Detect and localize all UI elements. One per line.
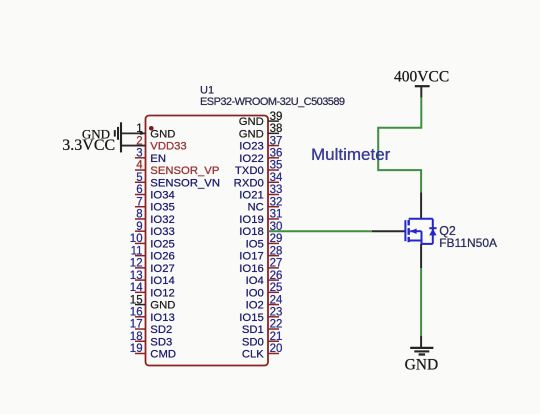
svg-text:3.3VCC: 3.3VCC [62, 137, 115, 154]
svg-text:36: 36 [270, 148, 283, 160]
svg-text:IO32: IO32 [150, 214, 175, 226]
svg-text:34: 34 [270, 172, 283, 184]
pin 5 SENSOR_VN [135, 172, 220, 189]
svg-text:IO12: IO12 [150, 287, 175, 299]
svg-text:IO2: IO2 [246, 300, 264, 312]
svg-text:EN: EN [150, 153, 166, 165]
pin 20 CLK [242, 343, 283, 360]
svg-text:22: 22 [270, 319, 283, 331]
svg-text:IO23: IO23 [239, 141, 264, 153]
svg-text:IO21: IO21 [239, 190, 264, 202]
wire source to ground (green) [420, 268, 422, 336]
svg-text:3: 3 [136, 148, 142, 160]
pin 36 IO22 [239, 148, 282, 165]
pin 19 CMD [130, 343, 176, 360]
pin 35 TXD0 [235, 160, 282, 177]
svg-text:400VCC: 400VCC [394, 69, 449, 86]
svg-text:IO13: IO13 [150, 312, 175, 324]
svg-text:19: 19 [130, 343, 143, 355]
svg-text:IO22: IO22 [239, 153, 264, 165]
svg-text:6: 6 [136, 184, 142, 196]
pin 3 EN [135, 148, 166, 165]
svg-text:IO0: IO0 [246, 287, 264, 299]
svg-text:35: 35 [270, 160, 283, 172]
svg-text:24: 24 [270, 294, 283, 306]
svg-text:38: 38 [270, 123, 283, 135]
svg-text:IO27: IO27 [150, 263, 175, 275]
pin 32 NC [247, 196, 282, 213]
wire gate stub (black) [372, 230, 405, 232]
svg-text:26: 26 [270, 270, 283, 282]
pin 11 IO26 [131, 245, 175, 262]
pin 24 IO2 [246, 294, 283, 311]
svg-text:U1: U1 [200, 85, 214, 97]
svg-text:15: 15 [130, 294, 143, 306]
pin 21 SD0 [242, 331, 283, 348]
pin 33 IO21 [239, 184, 282, 201]
wire IO18 pin30 to gate (green) [268, 230, 372, 232]
svg-text:GND: GND [150, 300, 175, 312]
svg-text:39: 39 [270, 111, 283, 123]
svg-text:7: 7 [136, 196, 142, 208]
svg-text:4: 4 [136, 160, 143, 172]
pin 6 IO34 [135, 184, 175, 201]
pin 9 IO33 [135, 221, 175, 238]
svg-text:SD1: SD1 [242, 324, 264, 336]
junction dot on pin 1 wire [140, 131, 143, 134]
svg-text:FB11N50A: FB11N50A [439, 236, 497, 250]
svg-text:NC: NC [247, 202, 263, 214]
svg-text:27: 27 [270, 258, 283, 270]
pin 30 IO18 [239, 221, 282, 238]
ground GND (left, rotated) [82, 122, 121, 144]
svg-text:10: 10 [130, 233, 143, 245]
svg-text:GND: GND [405, 356, 439, 373]
svg-text:13: 13 [130, 270, 143, 282]
svg-text:IO33: IO33 [150, 226, 175, 238]
svg-text:GND: GND [239, 128, 264, 140]
svg-text:RXD0: RXD0 [234, 177, 264, 189]
wire ground stub (black) [420, 336, 422, 348]
svg-text:20: 20 [270, 343, 283, 355]
pin 34 RXD0 [234, 172, 283, 189]
svg-text:IO17: IO17 [239, 251, 264, 263]
svg-text:29: 29 [270, 233, 283, 245]
svg-text:9: 9 [136, 221, 142, 233]
svg-text:SD0: SD0 [242, 336, 264, 348]
svg-text:23: 23 [270, 307, 283, 319]
svg-text:37: 37 [270, 135, 283, 147]
svg-text:16: 16 [130, 307, 143, 319]
svg-text:IO5: IO5 [246, 238, 264, 250]
svg-text:18: 18 [130, 331, 143, 343]
pin 37 IO23 [239, 135, 282, 152]
pin 27 IO16 [239, 258, 282, 275]
pin 12 IO27 [130, 258, 175, 275]
svg-text:VDD33: VDD33 [150, 141, 186, 153]
power 3.3VCC flag [62, 137, 121, 154]
svg-text:5: 5 [136, 172, 142, 184]
svg-text:CMD: CMD [150, 348, 176, 360]
svg-text:ESP32-WROOM-32U_C503589: ESP32-WROOM-32U_C503589 [200, 96, 345, 108]
svg-text:IO18: IO18 [239, 226, 264, 238]
svg-text:GND: GND [150, 128, 175, 140]
wire drain stub (black) [420, 192, 422, 218]
svg-text:IO35: IO35 [150, 202, 175, 214]
pin 25 IO0 [246, 282, 283, 299]
pin 1 GND [136, 123, 175, 140]
svg-text:33: 33 [270, 184, 283, 196]
pin 10 IO25 [130, 233, 175, 250]
ground GND (bottom) [405, 348, 439, 373]
IC U1 ESP32-WROOM-32U body [146, 116, 269, 366]
svg-text:GND: GND [239, 116, 264, 128]
svg-text:28: 28 [270, 245, 283, 257]
svg-text:11: 11 [131, 245, 143, 257]
wire source stub (black) [420, 244, 422, 268]
svg-text:SD2: SD2 [150, 324, 172, 336]
pin 23 IO15 [239, 307, 282, 324]
wire pin1 to GND flag [121, 132, 146, 134]
svg-text:IO14: IO14 [150, 275, 175, 287]
svg-text:IO25: IO25 [150, 238, 175, 250]
pin 31 IO19 [239, 209, 282, 226]
pin 38 GND [239, 123, 283, 140]
pin 4 SENSOR_VP [135, 160, 219, 177]
pin 26 IO4 [246, 270, 283, 287]
pin 14 IO12 [130, 282, 175, 299]
wire pin2 to 3.3VCC flag [121, 145, 146, 147]
svg-text:17: 17 [130, 319, 143, 331]
svg-text:SENSOR_VN: SENSOR_VN [150, 177, 220, 189]
pin 13 IO14 [130, 270, 175, 287]
pin 22 SD1 [242, 319, 283, 336]
svg-text:31: 31 [270, 209, 283, 221]
pin 18 SD3 [130, 331, 172, 348]
transistor Q2 N-MOSFET [405, 219, 436, 244]
svg-text:IO34: IO34 [150, 190, 175, 202]
svg-text:SD3: SD3 [150, 336, 172, 348]
pin 16 IO13 [130, 307, 175, 324]
pin 1 marker dot [149, 126, 154, 131]
svg-text:IO19: IO19 [239, 214, 264, 226]
pin 2 VDD33 [136, 135, 187, 152]
svg-text:TXD0: TXD0 [235, 165, 264, 177]
svg-text:12: 12 [130, 258, 143, 270]
pin 29 IO5 [246, 233, 283, 250]
svg-text:14: 14 [130, 282, 143, 294]
svg-text:IO26: IO26 [150, 251, 175, 263]
svg-text:25: 25 [270, 282, 283, 294]
svg-text:SENSOR_VP: SENSOR_VP [150, 165, 219, 177]
pin 17 SD2 [130, 319, 172, 336]
svg-text:21: 21 [270, 331, 283, 343]
svg-text:IO4: IO4 [246, 275, 264, 287]
power 400VCC flag [394, 69, 449, 98]
svg-text:CLK: CLK [242, 348, 264, 360]
pin 39 GND [239, 111, 283, 128]
pin 7 IO35 [135, 196, 175, 213]
pin 15 GND [130, 294, 176, 311]
svg-text:32: 32 [270, 196, 283, 208]
svg-text:8: 8 [136, 209, 142, 221]
svg-text:IO15: IO15 [239, 312, 264, 324]
wire 400VCC to Q2 drain (green, jog) [378, 98, 421, 193]
svg-text:Multimeter: Multimeter [311, 145, 391, 164]
pin 8 IO32 [135, 209, 175, 226]
svg-text:IO16: IO16 [239, 263, 264, 275]
pin 28 IO17 [239, 245, 282, 262]
